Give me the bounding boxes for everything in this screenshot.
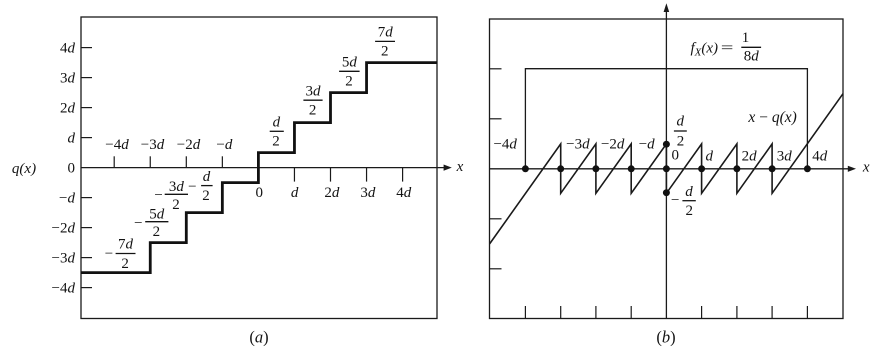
panel (a) fraction label -5d/2 xyxy=(134,207,168,241)
svg-text:3d: 3d xyxy=(306,83,322,99)
panel (b) frame box xyxy=(490,19,844,319)
svg-text:2: 2 xyxy=(272,134,280,150)
svg-text:−: − xyxy=(134,215,142,231)
panel (b) fraction label -d/2 at (0, -d/2) xyxy=(671,184,696,219)
panel (b) fraction label d/2 at (0, d/2) xyxy=(674,114,687,150)
svg-text:−3d: −3d xyxy=(52,251,76,267)
panel (b) left edge ticks xyxy=(490,69,502,269)
panel (a) fraction label 3d/2 xyxy=(303,83,322,118)
svg-text:−d: −d xyxy=(216,137,232,153)
svg-text:2: 2 xyxy=(381,44,389,60)
panel (b) x tick labels negative xyxy=(493,136,655,152)
panel (a) y-axis ticks xyxy=(81,48,92,288)
svg-text:3d: 3d xyxy=(360,185,376,201)
svg-text:−: − xyxy=(105,246,113,262)
svg-text:−4d: −4d xyxy=(52,281,76,297)
svg-text:7d: 7d xyxy=(118,237,134,253)
svg-text:0: 0 xyxy=(68,161,76,177)
panel (b) sawtooth error curve x - q(x) xyxy=(490,94,843,244)
svg-text:4d: 4d xyxy=(396,185,412,201)
panel (b) y-axis xyxy=(664,3,670,318)
svg-text:4d: 4d xyxy=(812,148,828,164)
panel (a) fraction label -3d/2 xyxy=(154,179,188,213)
svg-text:(a): (a) xyxy=(249,327,268,346)
panel (b) x tick labels positive xyxy=(671,148,827,165)
svg-text:d: d xyxy=(705,148,713,164)
svg-text:−4d: −4d xyxy=(493,137,517,153)
svg-text:2: 2 xyxy=(202,188,210,204)
svg-text:−4d: −4d xyxy=(105,137,129,153)
panel (a) x-axis tick labels negative xyxy=(105,137,233,153)
svg-text:−2d: −2d xyxy=(177,137,201,153)
svg-text:−: − xyxy=(671,192,679,208)
panel (a) fraction label 7d/2 xyxy=(375,25,395,60)
svg-text:0: 0 xyxy=(255,185,263,201)
svg-text:−3d: −3d xyxy=(566,136,590,152)
svg-text:(b): (b) xyxy=(656,327,675,346)
panel (a) staircase q(x) bold curve xyxy=(81,63,437,273)
svg-text:=: = xyxy=(721,40,734,56)
svg-text:q(x): q(x) xyxy=(12,161,36,177)
svg-text:7d: 7d xyxy=(378,25,394,41)
svg-text:1: 1 xyxy=(742,30,750,46)
svg-text:2d: 2d xyxy=(324,185,340,201)
panel (b) bottom edge ticks xyxy=(525,306,807,319)
svg-text:−d: −d xyxy=(59,191,75,207)
svg-text:5d: 5d xyxy=(149,207,165,223)
panel (a) frame box xyxy=(81,17,437,319)
svg-text:2: 2 xyxy=(677,134,685,150)
panel (b) pdf label fX(x) = 1/(8d) xyxy=(691,30,762,65)
panel (a) x-axis ticks positive (below axis) xyxy=(294,168,402,182)
svg-text:3d: 3d xyxy=(169,179,185,195)
svg-text:2: 2 xyxy=(309,103,317,119)
svg-text:x: x xyxy=(456,159,464,175)
svg-text:d: d xyxy=(685,184,693,200)
svg-text:d: d xyxy=(68,131,76,147)
svg-text:8d: 8d xyxy=(744,49,760,65)
panel (a) fraction label d/2 xyxy=(270,115,284,150)
panel (a) fraction label -7d/2 xyxy=(105,237,136,272)
svg-text:d: d xyxy=(273,115,281,131)
panel (a) fraction label -d/2 xyxy=(188,169,212,204)
svg-text:−2d: −2d xyxy=(52,221,76,237)
svg-text:2: 2 xyxy=(345,74,353,90)
svg-text:−3d: −3d xyxy=(141,137,165,153)
svg-text:5d: 5d xyxy=(342,55,358,71)
svg-text:x − q(x): x − q(x) xyxy=(747,109,796,126)
svg-text:2: 2 xyxy=(686,203,694,219)
svg-text:−2d: −2d xyxy=(601,136,625,152)
svg-text:2d: 2d xyxy=(742,148,758,164)
svg-text:2: 2 xyxy=(121,256,129,272)
svg-text:x: x xyxy=(862,159,870,175)
svg-text:2d: 2d xyxy=(60,101,76,117)
panel (b) x-axis xyxy=(490,166,857,172)
svg-text:2: 2 xyxy=(172,197,180,213)
svg-text:3d: 3d xyxy=(60,71,76,87)
panel (a) y-axis tick labels xyxy=(52,41,76,297)
panel (a) x-axis tick labels positive xyxy=(255,185,411,201)
svg-text:−: − xyxy=(154,187,162,203)
svg-text:−d: −d xyxy=(639,136,655,152)
panel (b) uniform pdf box fX(x) xyxy=(525,69,807,169)
panel (a) x-axis ticks negative (above axis) xyxy=(114,156,222,167)
svg-text:3d: 3d xyxy=(777,148,793,164)
dots at (0, d/2) and (0, -d/2) xyxy=(663,141,670,148)
svg-text:2: 2 xyxy=(153,224,161,240)
panel (a) fraction label 5d/2 xyxy=(339,55,360,90)
svg-text:−: − xyxy=(188,179,196,195)
svg-text:d: d xyxy=(291,185,299,201)
svg-text:fX(x): fX(x) xyxy=(691,41,719,59)
svg-text:4d: 4d xyxy=(60,41,76,57)
panel (b) axis dots xyxy=(522,141,811,197)
svg-text:d: d xyxy=(677,114,685,130)
svg-text:0: 0 xyxy=(671,148,679,164)
panel (a) x-axis xyxy=(81,165,452,171)
svg-text:d: d xyxy=(203,169,211,185)
